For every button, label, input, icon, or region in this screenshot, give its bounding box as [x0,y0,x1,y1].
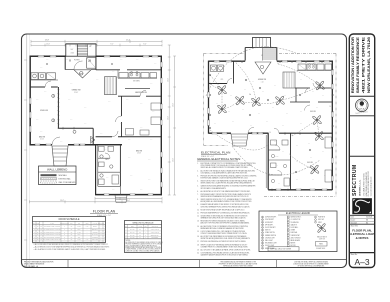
svg-text:ENTRY: ENTRY [93,226,97,228]
svg-text:SIZE: SIZE [131,226,134,228]
bath divider y186 [98,185,121,187]
svg-text:SWITCH: SWITCH [265,230,270,232]
svg-text:KITCHEN: KITCHEN [133,81,140,83]
master bath wall y96 [118,95,161,97]
svg-text:$ 2: $ 2 [228,111,230,113]
ceiling vents floor plan [46,60,113,65]
svg-text:DESCRIPTION: DESCRIPTION [60,223,69,225]
svg-text:6'8: 6'8 [40,236,42,238]
exterior right wall [160,56,162,196]
roof overhang dash-dot outline [204,54,337,197]
svg-text:GFI RECEPT.: GFI RECEPT. [265,222,274,224]
svg-text:8.: 8. [197,199,199,201]
svg-text:BATH: BATH [275,155,278,158]
foyer walls [65,56,96,69]
svg-text:9'-6": 9'-6" [120,123,123,125]
svg-text:SYM: SYM [125,226,128,228]
svg-text:6'8: 6'8 [40,239,42,241]
svg-text:12'-4": 12'-4" [173,103,175,107]
svg-text:DINING RM: DINING RM [40,110,49,112]
svg-text:26'-8": 26'-8" [60,200,64,202]
svg-text:—: — [86,231,88,233]
svg-text:S: S [269,132,270,134]
svg-text:CEILING LIGHT: CEILING LIGHT [265,237,275,239]
svg-text:6'8: 6'8 [40,234,42,236]
svg-text:$ 2: $ 2 [282,125,284,127]
svg-text:GREAT RM: GREAT RM [72,89,81,92]
svg-text:Sheet Title:: Sheet Title: [351,225,359,228]
svg-text:2'4: 2'4 [37,234,39,236]
svg-text:$ 2: $ 2 [322,151,324,153]
svg-text:A–3: A–3 [354,257,369,267]
svg-text:1: 1 [104,229,105,231]
svg-text:1: 1 [34,226,35,228]
svg-text:THERMOSTAT: THERMOSTAT [291,234,300,237]
svg-text:9'-6": 9'-6" [128,139,131,141]
svg-text:SIZE: SIZE [36,223,39,225]
title block divider 1 [349,95,374,97]
bath wall x120 [119,145,121,194]
exterior bottom-left wall [30,144,123,146]
electrical hall wall vertical [266,133,268,189]
svg-text:PT: PT [71,236,73,238]
entry stair bump (floor plan) [66,44,96,56]
svg-text:1: 1 [64,239,65,241]
svg-text:9'-6": 9'-6" [100,133,103,135]
rear steps [115,195,127,202]
svg-text:SPECTRUM: SPECTRUM [352,164,358,196]
svg-text:9'-6": 9'-6" [140,189,143,191]
sheet border frame [22,34,347,268]
svg-text:THIS DRAWING AND ALL INFORMATI: THIS DRAWING AND ALL INFORMATION HEREIN … [220,261,256,264]
svg-text:6: 6 [64,229,65,231]
ceiling fans [217,81,325,175]
svg-text:PT: PT [71,231,73,233]
hall wall y137 [96,136,162,138]
svg-text:CLOSET: CLOSET [92,231,97,233]
svg-text:CO DETECTOR: CO DETECTOR [291,219,301,221]
svg-text:9.: 9. [197,204,199,206]
svg-text:CONTRACTOR SHALL VERIFY ALL DI: CONTRACTOR SHALL VERIFY ALL DIMENSIONS A… [294,261,328,264]
svg-text:13.: 13. [197,221,200,223]
svg-text:RECESSED LIGHT: RECESSED LIGHT [265,243,277,245]
svg-text:SPKR: SPKR [318,222,322,224]
svg-text:4: 4 [34,234,35,236]
svg-text:REMARKS: REMARKS [152,225,158,228]
svg-text:$ 2: $ 2 [278,183,280,185]
svg-text:SMOKE DETECTORS TO BE HARDWIRE: SMOKE DETECTORS TO BE HARDWIRED W/ BATTE… [201,180,255,183]
svg-text:5'0: 5'0 [37,236,39,238]
top dimension lines (floor plan) [31,40,162,47]
svg-text:2: 2 [64,236,65,238]
svg-text:$ 2: $ 2 [250,125,252,127]
svg-text:9'-6": 9'-6" [154,63,157,65]
svg-text:9'-6": 9'-6" [106,177,109,179]
section triangle marker [91,136,95,143]
spectrum S logo black box [352,198,372,214]
svg-text:SC WOOD PANEL, WSTRIP: SC WOOD PANEL, WSTRIP [44,225,60,228]
svg-text:9'-6": 9'-6" [108,101,111,103]
svg-text:PUSH BTN: PUSH BTN [318,217,325,219]
small note box [268,247,299,251]
interior wall y128 [58,127,93,130]
svg-text:WP RECEPT.: WP RECEPT. [265,224,274,226]
svg-text:12.: 12. [197,215,200,217]
svg-text:9'-6": 9'-6" [96,79,99,81]
project info rotated text [351,36,371,93]
svg-text:≡≡≡: ≡≡≡ [360,105,363,107]
window schedule table [125,221,164,253]
svg-text:9'-6": 9'-6" [150,139,153,141]
svg-text:DIMMER SWITCH: DIMMER SWITCH [265,235,276,237]
svg-text:LNDG: LNDG [71,53,75,55]
svg-text:DN: DN [89,46,91,48]
svg-text:12'x13': 12'x13' [137,153,142,155]
svg-text:16.: 16. [197,236,200,238]
svg-text:1.: 1. [197,163,199,165]
svg-text:9'-6": 9'-6" [46,59,49,61]
pantry shelves [105,77,117,95]
svg-text:RECESSED FIXTURES IN INSULATED: RECESSED FIXTURES IN INSULATED CEILINGS … [201,220,246,223]
title block divider 2 [349,115,374,117]
svg-text:D: D [101,239,102,241]
svg-text:Sheet No.: Sheet No. [351,253,358,256]
svg-text:B: B [126,232,127,234]
svg-text:$ 2: $ 2 [296,161,298,163]
svg-text:PT: PT [71,234,73,236]
svg-text:9'-6": 9'-6" [120,59,123,61]
svg-text:1: 1 [104,239,105,241]
svg-text:$ 2: $ 2 [272,107,274,109]
svg-text:PROVIDE GFCI PROTECTED RECEPTA: PROVIDE GFCI PROTECTED RECEPTACLES AT AL… [201,174,258,177]
svg-text:WALL LIGHT: WALL LIGHT [265,239,273,242]
svg-text:9'-6": 9'-6" [150,83,153,85]
svg-text:9'-6": 9'-6" [112,189,115,191]
wall marker circle 1 [52,94,55,97]
svg-text:12'-6": 12'-6" [46,44,50,46]
svg-text:TYPE: TYPE [139,226,142,228]
svg-text:2: 2 [64,234,65,236]
svg-text:PROVIDE WEATHERPROOF COVERS AT: PROVIDE WEATHERPROOF COVERS AT ALL EXTER… [201,211,251,214]
svg-text:PANEL: PANEL [319,243,323,246]
svg-text:SIDE DR: SIDE DR [92,241,97,243]
svg-text:9'-6": 9'-6" [126,99,129,101]
svg-text:$ 2: $ 2 [296,179,298,181]
svg-text:$ 2: $ 2 [316,107,318,109]
svg-text:9'-6": 9'-6" [70,119,73,121]
architect seal [355,99,368,115]
svg-text:9'-6": 9'-6" [140,103,143,105]
electrical kitchen counters [297,64,332,71]
svg-text:EXHAUST FANS AT BATHS TO BE VE: EXHAUST FANS AT BATHS TO BE VENTED TO EX… [201,203,250,206]
svg-text:12'-4": 12'-4" [167,78,169,82]
svg-text:9'-6": 9'-6" [66,59,69,61]
svg-text:6'8: 6'8 [40,241,42,243]
room labels (floor plan) [39,89,148,162]
svg-text:A: A [126,228,127,231]
svg-text:$ 2: $ 2 [252,81,254,83]
svg-text:$ 2: $ 2 [274,85,276,87]
svg-text:& NOTES: & NOTES [356,236,369,240]
svg-text:SYM: SYM [33,223,36,225]
svg-text:S: S [267,143,268,145]
master bedroom furniture [126,103,161,135]
svg-text:19.: 19. [197,249,200,251]
inner left margin line [24,35,30,268]
svg-text:LKST: LKST [77,226,80,228]
svg-text:0.40: 0.40 [86,226,89,228]
svg-text:PT: PT [71,229,73,231]
svg-text:9'-6": 9'-6" [68,99,71,101]
svg-text:3d: 3d [249,94,251,96]
svg-text:REPRODUCED WITHOUT WRITTEN CON: REPRODUCED WITHOUT WRITTEN CONSENT [223,266,253,268]
svg-text:DOOR BELL: DOOR BELL [291,227,299,229]
svg-text:8'-4": 8'-4" [143,44,147,46]
electrical legend box [259,211,337,252]
svg-text:2'8: 2'8 [37,239,39,241]
svg-text:10.: 10. [197,209,200,211]
svg-text:17.: 17. [197,241,200,243]
svg-text:9'-6": 9'-6" [40,131,43,133]
general electrical notes [197,157,257,257]
svg-text:SMOKE DETECT.: SMOKE DETECT. [291,217,302,219]
svg-text:PROVIDE ARC-FAULT CIRCUIT PROT: PROVIDE ARC-FAULT CIRCUIT PROTECTION FOR… [201,193,251,196]
svg-text:$ 2: $ 2 [262,91,264,93]
electrical top wall [209,60,334,62]
svg-text:FIN: FIN [78,223,80,225]
interior wall x93 [92,128,94,145]
svg-text:9'-6": 9'-6" [44,91,47,93]
window symbols electrical plan [207,60,333,191]
svg-text:ELECTRICAL CONTRACTOR TO COORD: ELECTRICAL CONTRACTOR TO COORDINATE ALL … [201,162,257,165]
svg-text:2: 2 [104,231,105,233]
kitchen counters [118,70,157,82]
svg-text:0.40: 0.40 [86,239,89,241]
svg-text:CHIME: CHIME [291,230,295,232]
bath divider y158 [98,157,110,159]
FLOOR PLAN title [90,209,118,217]
svg-text:6'8: 6'8 [40,226,42,228]
svg-text:SH: SH [139,234,141,236]
revisions empty box [349,155,374,157]
svg-text:2.: 2. [197,170,199,172]
svg-text:GREAT RM: GREAT RM [258,78,267,81]
svg-text:$ 2: $ 2 [300,79,302,81]
svg-text:ELECTRICAL PLAN: ELECTRICAL PLAN [201,151,230,155]
svg-text:4: 4 [145,232,146,234]
svg-text:TRK: TRK [78,236,81,238]
svg-text:9'-6": 9'-6" [148,159,151,161]
svg-text:QTY: QTY [70,223,73,225]
svg-text:$ 2: $ 2 [308,143,310,145]
svg-text:17'x21': 17'x21' [74,92,79,94]
svg-text:ALL WORK TO BE PERFORMED BY A: ALL WORK TO BE PERFORMED BY A LICENSED E… [201,235,248,238]
svg-text:BED RM: BED RM [39,137,46,139]
bedroom wall x121 [121,96,123,137]
svg-text:SINGLE FAMILY RESIDENCE: SINGLE FAMILY RESIDENCE [356,36,360,93]
svg-text:DISPOSAL: DISPOSAL [291,231,298,234]
svg-text:2: 2 [104,236,105,238]
svg-text:ELECTRICAL LEGEND: ELECTRICAL LEGEND [286,212,311,215]
svg-text:DISC SW: DISC SW [318,219,324,221]
electrical left wall [208,61,210,134]
svg-text:$ 2: $ 2 [322,95,324,97]
svg-text:2: 2 [34,229,35,231]
svg-text:ALL NEW WORK TO BE COORDINATED: ALL NEW WORK TO BE COORDINATED WITH EXIS… [201,225,249,228]
svg-text:BED RM: BED RM [310,111,316,113]
svg-text:3'0 x 5'0: 3'0 x 5'0 [130,229,135,231]
svg-text:Registered Architect: Registered Architect [355,110,368,115]
svg-text:UTIL: UTIL [221,79,224,81]
sheet number [351,253,370,267]
svg-text:6'8: 6'8 [40,231,42,233]
interior micro marks electrical plan [214,71,326,185]
svg-text:0.40: 0.40 [86,241,89,243]
electrical plan stoop [253,38,271,48]
svg-text:CLOSETS: CLOSETS [92,236,98,238]
electrical pantry [283,72,295,88]
svg-text:2'0 x 3'0: 2'0 x 3'0 [130,234,135,236]
svg-text:$ 2: $ 2 [300,123,302,125]
svg-text:9'-6": 9'-6" [70,83,73,85]
outlets and switches [209,61,333,191]
drawn/date rows [349,216,374,225]
svg-text:3'0: 3'0 [37,226,39,228]
svg-text:Date:: Date: [351,216,355,219]
svg-text:3-WAY SWITCH: 3-WAY SWITCH [265,231,275,234]
svg-text:DOOR SCHEDULE: DOOR SCHEDULE [59,218,80,221]
svg-text:9'-2": 9'-2" [110,44,114,46]
svg-text:VINYL, LOW-E: VINYL, LOW-E [151,229,159,231]
svg-text:3: 3 [34,231,35,233]
svg-text:◇ 24: ◇ 24 [261,81,264,83]
title block frame [349,34,374,268]
svg-text:6'8: 6'8 [40,229,42,231]
svg-text:Drawn:: Drawn: [351,219,356,222]
svg-text:LKST: LKST [77,239,80,241]
svg-text:$ 2: $ 2 [312,179,314,181]
svg-text:$ 2: $ 2 [300,111,302,113]
sheet title text [349,225,375,240]
title block divider 4 [349,223,374,225]
svg-text:$ 2: $ 2 [244,89,246,91]
svg-text:DUPLEX RECEPT.: DUPLEX RECEPT. [265,217,277,219]
svg-text:20.: 20. [197,252,200,254]
svg-text:VINYL, LOW-E: VINYL, LOW-E [151,232,159,234]
svg-text:PANEL BOARD: PANEL BOARD [291,239,300,242]
svg-text:B: B [101,231,102,233]
svg-text:14.: 14. [197,226,200,228]
svg-text:9'-6": 9'-6" [40,67,43,69]
svg-text:5.: 5. [197,186,199,188]
svg-text:$ 2: $ 2 [286,113,288,115]
svg-text:12'-4": 12'-4" [167,116,169,120]
svg-text:4821 PIETY DRIVE: 4821 PIETY DRIVE [362,36,366,93]
svg-text:S: S [329,106,330,108]
svg-text:BED RM: BED RM [136,151,143,153]
svg-text:COORDINATE ALL FIXTURE AND DEV: COORDINATE ALL FIXTURE AND DEVICE LOCATI… [201,251,250,254]
svg-text:FOYER: FOYER [74,59,80,61]
hall wall pair [96,145,122,186]
electrical canopy triangle [255,62,271,74]
svg-text:9'-6": 9'-6" [36,119,39,121]
bottom dimension lines [30,197,163,203]
wall marker circle 3 [73,130,76,133]
svg-text:18.: 18. [197,244,200,246]
svg-text:—: — [86,234,88,236]
svg-text:ALL CIRCUITS TO BE LABELED AT: ALL CIRCUITS TO BE LABELED AT PANEL UPON… [201,248,252,251]
svg-text:PADDLE FAN W/: PADDLE FAN W/ [317,236,328,239]
svg-text:6.: 6. [197,191,199,193]
svg-text:11.: 11. [197,212,200,214]
svg-text:$ 2: $ 2 [312,91,314,93]
svg-text:★ ★ ★: ★ ★ ★ [359,107,365,110]
svg-text:SH: SH [139,229,141,231]
svg-text:28'-0": 28'-0" [126,200,130,202]
svg-text:LKST: LKST [77,241,80,243]
svg-text:PT: PT [71,241,73,243]
title block divider 5 [349,252,374,254]
svg-text:—: — [86,236,88,238]
svg-text:HDW: HDW [86,223,90,225]
svg-text:DESIGNS, L.L.C.: DESIGNS, L.L.C. [360,179,362,196]
ELECTRICAL PLAN title [201,151,230,158]
svg-text:2'8: 2'8 [37,229,39,231]
svg-text:9'-6": 9'-6" [136,59,139,61]
svg-text:$ 2: $ 2 [218,87,220,89]
svg-text:LIGHT KIT: LIGHT KIT [319,238,325,240]
svg-text:MOUNT SWITCHES AT 48" AFF; REC: MOUNT SWITCHES AT 48" AFF; RECEPTACLES A… [201,208,246,211]
svg-text:9'-6": 9'-6" [152,111,155,113]
svg-text:PT: PT [71,226,73,228]
svg-text:9'-6": 9'-6" [60,141,63,143]
svg-text:1: 1 [104,226,105,228]
svg-text:OBSCURE GL.: OBSCURE GL. [151,234,160,236]
svg-text:RENOVATION / ADDITION FOR: RENOVATION / ADDITION FOR [351,37,355,94]
svg-text:NEW WALL: NEW WALL [59,174,68,177]
exterior left wall [29,56,31,146]
svg-text:ALL RECEPTACLE OUTLETS TO BE T: ALL RECEPTACLE OUTLETS TO BE TAMPER RESI… [201,190,251,193]
svg-text:200 AMP SERV.: 200 AMP SERV. [316,247,326,250]
hall left wall [95,145,97,194]
svg-text:C: C [101,236,102,238]
electrical bath cluster [268,133,290,190]
svg-text:$ 2: $ 2 [282,151,284,153]
svg-text:2: 2 [64,231,65,233]
svg-text:C: C [126,234,127,236]
electrical kitchen bottom wall [295,87,332,89]
svg-text:EXISTING WALL: EXISTING WALL [59,177,71,180]
svg-text:2'8 x 4'6: 2'8 x 4'6 [130,232,135,234]
closet beside stair [87,58,96,69]
svg-text:$ 2: $ 2 [276,165,278,167]
svg-text:CABLE TV: CABLE TV [291,223,298,226]
svg-text:ALL WORK TO BE INSTALLED IN AC: ALL WORK TO BE INSTALLED IN ACCORDANCE W… [201,169,257,172]
electrical room labels [221,55,317,164]
svg-text:TYPE: TYPE [50,223,53,225]
svg-text:$ 2: $ 2 [230,95,232,97]
kitchen/bed wall horizontal [30,86,58,88]
exterior bottom wall [95,194,162,196]
svg-text:SH: SH [139,232,141,234]
svg-text:PRIV: PRIV [78,234,81,236]
svg-text:4.: 4. [197,181,199,183]
title block divider 3 [349,214,374,216]
svg-text:9'-6": 9'-6" [130,175,133,177]
wall y88 short [125,88,150,90]
svg-text:QTY: QTY [144,226,147,228]
svg-text:7.: 7. [197,194,199,196]
